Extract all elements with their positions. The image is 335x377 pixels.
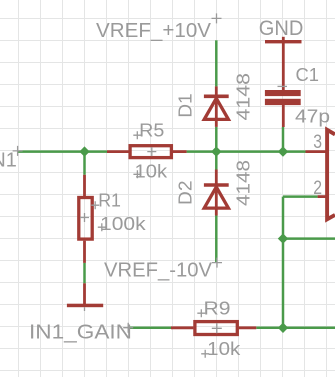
- svg-text:VREF_-10V: VREF_-10V: [104, 259, 212, 282]
- svg-text:10k: 10k: [207, 338, 241, 359]
- op-amp pin number 2: [313, 177, 322, 199]
- wire D1 bottom through junction to D2 top: [215, 127, 218, 170]
- wire IN1 to R5 left: [18, 150, 107, 153]
- pin R9 left: [171, 326, 193, 329]
- resistor R5 body: [130, 146, 171, 158]
- pin D2 cathode top: [215, 170, 218, 184]
- label R1 value cross: [98, 223, 106, 231]
- resistor R9 center cross: [212, 323, 222, 333]
- junction node J1 on IN1 net: [79, 146, 89, 156]
- svg-text:D2: D2: [175, 181, 196, 206]
- op-amp U1 left edge and slants: [327, 130, 335, 220]
- net label VREF_-10V: [104, 259, 212, 282]
- label D1 value 4148: [232, 73, 253, 121]
- wire C1 bottom to main net: [282, 127, 285, 152]
- pin op-amp 3: [306, 150, 327, 153]
- label R1 value 100k: [100, 213, 146, 234]
- junction node J5 R9 net: [278, 323, 288, 333]
- resistor R5 center cross: [147, 147, 156, 156]
- pin R1 top: [83, 175, 86, 196]
- label D2 value 4148: [232, 160, 253, 206]
- pin R5 right: [173, 150, 187, 153]
- svg-text:2: 2: [313, 177, 322, 199]
- svg-text:3: 3: [313, 131, 322, 153]
- label R9 name cross: [197, 309, 205, 317]
- label R9 value 10k: [207, 338, 241, 359]
- diode D1 triangle: [204, 98, 228, 119]
- net label IN1_GAIN: [29, 320, 132, 343]
- label D1 name: [175, 93, 196, 118]
- wire op-amp pin 2 horizontal: [283, 195, 318, 198]
- diode D1 cathode bar: [204, 95, 229, 99]
- wire R9 right to right edge: [256, 327, 335, 330]
- svg-text:4148: 4148: [232, 73, 253, 121]
- wire R1 bottom to supply bar: [83, 263, 86, 283]
- svg-text:D1: D1: [175, 93, 196, 118]
- label R5 name: [139, 120, 164, 141]
- label C1 value 47p: [295, 106, 330, 127]
- pin GND to C1 top: [282, 37, 285, 91]
- wire feedback branch to right edge: [283, 237, 335, 240]
- net label IN1: [0, 149, 17, 172]
- svg-text:VREF_+10V: VREF_+10V: [96, 19, 211, 42]
- label R9 name: [204, 297, 231, 318]
- pin D1 cathode top: [215, 86, 218, 95]
- junction node J3 C1 column: [278, 146, 288, 156]
- junction node J4 feedback branch: [278, 233, 288, 243]
- capacitor C1 bottom plate: [265, 99, 301, 105]
- capacitor C1 origin tick: [278, 85, 288, 87]
- resistor R1 center cross: [80, 213, 89, 222]
- junction node J2 diode column: [211, 146, 221, 156]
- wire IN1_GAIN to R9: [128, 327, 171, 330]
- diode D2 triangle: [204, 187, 228, 208]
- svg-text:R9: R9: [204, 297, 231, 318]
- wire right column vertical (pin2 corner to R9 node): [282, 197, 285, 328]
- wire junction J1 down to R1: [83, 152, 86, 175]
- pin R5 left: [107, 150, 129, 153]
- supply bar origin tick: [84, 307, 86, 311]
- label R5 value cross: [133, 170, 141, 178]
- net label IN1 cross: [13, 146, 23, 156]
- op-amp pin number 3: [313, 131, 322, 153]
- svg-text:C1: C1: [296, 64, 320, 85]
- pin D1 anode through triangle: [215, 98, 218, 127]
- net label VREF_+10V cross: [212, 13, 222, 23]
- pin supply bar VREF_-10V: [83, 283, 86, 304]
- svg-text:IN1_GAIN: IN1_GAIN: [29, 320, 132, 343]
- wire D2 bottom to VREF_-10V label: [215, 216, 218, 264]
- svg-text:47p: 47p: [295, 106, 330, 127]
- svg-text:IN1: IN1: [0, 149, 17, 172]
- net label VREF_+10V: [96, 19, 211, 42]
- supply bar under R1: [67, 304, 103, 308]
- svg-text:100k: 100k: [100, 213, 146, 234]
- label D2 name: [175, 181, 196, 206]
- svg-text:R5: R5: [139, 120, 164, 141]
- label R5 name cross: [133, 131, 141, 139]
- pin D2 anode through triangle: [215, 187, 218, 216]
- label R1 name cross: [91, 201, 99, 209]
- label R1 name: [98, 190, 121, 211]
- pin R1 bottom: [83, 241, 86, 263]
- wire R5 right to op-amp pin 3 (through nodes): [187, 150, 306, 153]
- ground symbol GND bar: [265, 40, 302, 43]
- label C1 name: [296, 64, 320, 85]
- net label IN1_GAIN cross: [123, 323, 133, 333]
- pin R9 right: [239, 326, 256, 329]
- resistor R9 body: [195, 322, 237, 335]
- capacitor C1 top plate: [265, 90, 301, 96]
- svg-text:GND: GND: [259, 15, 304, 40]
- wire VREF_+10V down to D1: [215, 40, 218, 86]
- ground symbol GND text: [259, 15, 304, 40]
- net label VREF_-10V cross: [212, 258, 222, 268]
- label R9 value cross: [201, 350, 209, 358]
- pin C1 bottom: [282, 105, 285, 127]
- svg-text:R1: R1: [98, 190, 121, 211]
- diode D2 cathode bar: [204, 183, 229, 187]
- resistor R1 body: [79, 198, 92, 240]
- pin op-amp 2: [318, 195, 327, 198]
- label R5 value 10k: [135, 161, 168, 182]
- svg-text:4148: 4148: [232, 160, 253, 206]
- svg-text:10k: 10k: [135, 161, 168, 182]
